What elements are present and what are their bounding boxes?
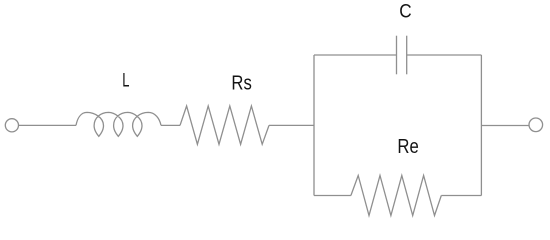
wire: left terminal to inductor bbox=[19, 124, 76, 126]
wire: bottom rail left of Re bbox=[314, 195, 351, 197]
left terminal bbox=[5, 119, 18, 132]
svg-text:L: L bbox=[122, 70, 129, 92]
svg-text:C: C bbox=[399, 2, 411, 23]
capacitor C plate 2 bbox=[406, 36, 408, 75]
wire: box to right terminal bbox=[481, 125, 529, 127]
resistor Re bbox=[351, 176, 441, 216]
wire: right side of parallel box bbox=[480, 55, 482, 196]
inductor L bbox=[76, 112, 161, 136]
wire: left side of parallel box bbox=[313, 55, 315, 196]
wire: Rs to parallel network bbox=[269, 124, 314, 126]
resistor Rs bbox=[180, 106, 269, 144]
capacitor C plate 1 bbox=[396, 36, 398, 75]
right terminal bbox=[529, 118, 543, 132]
svg-text:Re: Re bbox=[397, 135, 418, 158]
svg-text:Rs: Rs bbox=[231, 72, 251, 95]
wire: top rail left of capacitor bbox=[314, 54, 397, 56]
wire: top rail right of capacitor bbox=[407, 54, 482, 56]
wire: bottom rail right of Re bbox=[441, 195, 481, 197]
wire: inductor to Rs bbox=[161, 124, 180, 126]
